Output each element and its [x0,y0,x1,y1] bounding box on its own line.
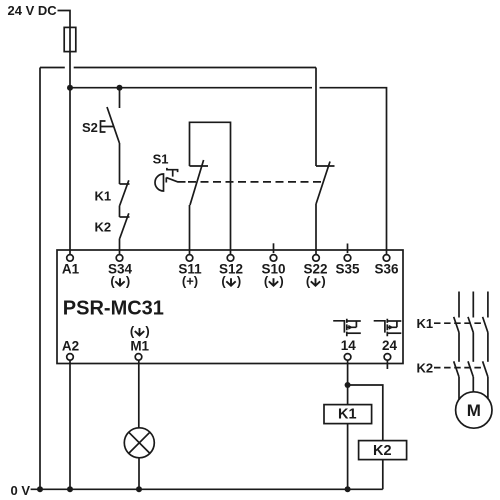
contact S1 left foot [190,165,209,167]
terminal S10 [270,255,277,262]
wire S1 left contact to terminal S11 [189,205,191,254]
terminal S34 [116,255,123,262]
wire S35 stub [347,244,349,254]
fuse F1 [64,27,76,51]
terminal 24 [384,354,391,361]
node junction dot at fuse/A1 branch [67,85,73,91]
svg-text:A2: A2 [62,339,79,354]
wire 14 to K1 coil and 0V [347,361,349,490]
wire S2 to K1 contact [119,143,121,184]
coil K2 box [359,441,407,460]
svg-text:S36: S36 [374,262,399,277]
node dot 0V A2 [67,486,73,492]
label S12 arrow [221,274,241,289]
terminal S36 [383,255,390,262]
node dot 0V K1 coil [345,486,351,492]
svg-text:K2: K2 [417,361,434,376]
phase line L2 [472,292,474,318]
wire left rail down to 0V [39,68,41,490]
svg-text:M: M [467,401,481,420]
label S34 arrow [110,274,130,289]
wire from 24V label to fuse branch [58,11,71,27]
contact K2 NC blade [120,213,129,238]
wire L3 mid [487,333,489,362]
wire F1 vertical through fuse down to A1 [69,27,71,255]
wire K1 to K2 contact [119,206,121,218]
wire second rail y=87.7 left segment [70,87,312,89]
wire 24 stub [386,361,388,370]
node dot 0V left rail [37,486,43,492]
contactor K1 contact L1 blade [454,317,459,333]
pushbutton S1 linkage tick [165,178,167,183]
node dot 0V lamp [136,486,142,492]
wire M1 to lamp [138,361,140,428]
svg-text:M1: M1 [130,339,149,354]
mechanical link dashed K1 contactor [434,322,485,324]
wire top rail y=67.5 right segment to S1 NC contact [74,67,316,69]
node junction dot at S2 branch [117,85,123,91]
coil K1 box [324,405,372,424]
svg-text:K1: K1 [417,316,434,331]
wire L1 mid [458,333,460,362]
wire L2 mid [472,333,474,362]
svg-text:(: ( [221,274,226,289]
contact S1 right blade [316,162,330,204]
wire A2 to 0V [69,361,71,490]
wire L2 to motor [472,377,474,392]
svg-text:(: ( [306,274,311,289]
wire S1 right contact to terminal S22 [315,204,317,255]
wire L1 to motor [458,377,460,400]
contactor K1 contact L3 blade [483,317,488,333]
contactor K2 contact L3 blade [483,361,488,377]
terminal 14 [344,354,351,361]
wire 0V rail [31,488,383,490]
wire S2 branch down [119,88,121,108]
svg-text:K2: K2 [95,220,112,235]
svg-text:PSR-MC31: PSR-MC31 [63,297,164,319]
switch S2 blade [107,107,119,143]
svg-text:(+): (+) [182,274,198,289]
svg-text:): ) [237,274,241,289]
wire L3 to motor [487,377,489,399]
wire top rail y=67.5 left segment [40,67,65,69]
svg-text:A1: A1 [62,262,80,277]
contact K1 NC foot [120,183,130,185]
svg-text:14: 14 [341,338,357,353]
mechanical link dashed K2 contactor [434,367,485,369]
wire branch to K2 coil [348,385,383,489]
contactor K2 contact L1 blade [454,361,459,377]
pushbutton S1 plunger T mark [167,168,178,177]
relay box PSR-MC31 [57,250,403,364]
contact K1 NC blade [120,180,129,205]
contactor K1 contact L2 blade [468,317,473,333]
wire lamp to 0V [138,458,140,490]
svg-text:K1: K1 [95,189,112,204]
terminal S22 [313,255,320,262]
node junction dot at K2 branch [345,382,351,388]
terminal A1 [67,255,74,262]
terminal S12 [227,255,234,262]
transistor output Q14 MOSFET [333,319,361,336]
terminal M1 [135,354,142,361]
svg-text:(: ( [130,323,135,338]
contact S1 left blade [190,160,204,205]
svg-text:(: ( [110,274,115,289]
svg-text:S35: S35 [335,262,360,277]
wire S11-S12 loop [190,122,231,254]
switch S2 latching actuator bracket [101,121,114,132]
svg-text:24 V DC: 24 V DC [8,3,58,18]
svg-text:): ) [279,274,283,289]
pushbutton S1 linkage slant [166,178,185,182]
svg-text:K1: K1 [338,407,357,423]
svg-text:): ) [145,323,149,338]
svg-text:0 V: 0 V [11,483,31,498]
contact K2 NC foot [120,216,130,218]
contact S1 right top wire [315,68,317,167]
contactor K2 contact L2 blade [468,361,473,377]
svg-text:24: 24 [382,338,398,353]
wire S10 stub [273,243,275,253]
pushbutton S1 mushroom head [155,174,164,191]
phase line L3 [487,292,489,318]
svg-text:S1: S1 [153,151,169,166]
svg-text:S2: S2 [82,120,98,135]
terminal S35 [344,255,351,262]
terminal A2 [67,354,74,361]
svg-text:): ) [321,274,325,289]
phase line L1 [458,292,460,318]
transistor output Q24 MOSFET [374,319,402,336]
label M1 arrow [130,323,150,338]
terminal S11 [186,255,193,262]
wire second rail y=87.7 right segment [320,88,387,255]
contact S1 right foot [316,165,335,167]
wire K2 to terminal S34 [119,239,121,255]
lamp H1 circle [124,428,154,458]
svg-text:K2: K2 [373,443,392,459]
lamp H1 cross [129,432,150,453]
motor M circle [456,392,492,428]
label S22 arrow [306,274,326,289]
svg-text:(: ( [264,274,269,289]
mechanical link dashed S1 [188,181,323,183]
label S10 arrow [264,274,284,289]
svg-text:): ) [126,274,130,289]
